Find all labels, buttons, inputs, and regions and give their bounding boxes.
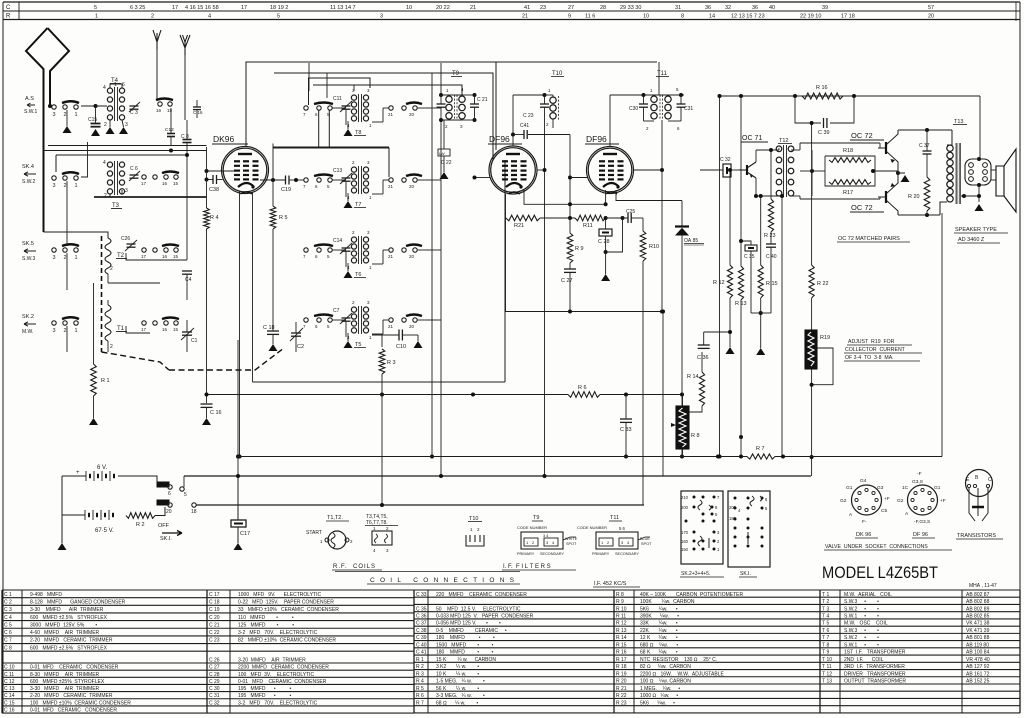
wire bus 394 long	[207, 394, 569, 396]
svg-text:VALVE UNDER SOCKET CONNECTI: VALVE UNDER SOCKET CONNECTIONS	[825, 544, 928, 550]
tube DF96b	[587, 147, 634, 194]
svg-text:4: 4	[208, 14, 211, 20]
capacitor C33	[625, 395, 627, 420]
svg-text:3-2 MFD 70V. ELECTROLYT: 3-2 MFD 70V. ELECTROLYTIC	[238, 630, 318, 636]
svg-text:3RD I.F. TRANSFORMER: 3RD I.F. TRANSFORMER	[844, 664, 905, 670]
svg-text:195 MMFD • •: 195 MMFD • •	[238, 686, 291, 692]
svg-text:C 2: C 2	[4, 599, 12, 605]
wire C38	[207, 179, 214, 181]
svg-text:0-5 MMFD CERAMIC: 0-5 MMFD CERAMIC •	[436, 628, 507, 634]
ground T8	[347, 125, 349, 129]
svg-text:2: 2	[110, 344, 113, 350]
svg-text:20: 20	[409, 254, 415, 259]
svg-text:R 5: R 5	[416, 686, 424, 692]
svg-text:600 MMFD ±2.5% STYROFLEX: 600 MMFD ±2.5% STYROFLEX	[30, 615, 108, 621]
resistor R1	[91, 364, 97, 396]
svg-text:R 17: R 17	[616, 657, 627, 663]
svg-text:2: 2	[64, 328, 67, 334]
svg-text:START: START	[306, 530, 322, 536]
svg-text:21: 21	[388, 112, 394, 117]
svg-text:C 21: C 21	[209, 622, 220, 628]
wire 570 column	[569, 135, 571, 219]
wire C25	[606, 217, 628, 219]
svg-text:16: 16	[156, 108, 162, 113]
svg-text:5 6: 5 6	[619, 526, 625, 531]
svg-text:170: 170	[681, 530, 689, 535]
svg-text:C 32: C 32	[209, 700, 220, 706]
switch SW3	[52, 248, 56, 252]
svg-text:0-01 MFD CERAMIC CONDENS: 0-01 MFD CERAMIC CONDENSER	[238, 679, 327, 685]
svg-text:C 22: C 22	[441, 160, 452, 166]
svg-text:G3,S: G3,S	[912, 479, 923, 485]
svg-text:2: 2	[104, 193, 107, 199]
svg-text:R19: R19	[820, 335, 830, 341]
svg-text:3: 3	[53, 112, 56, 118]
wire avc horiz	[48, 145, 207, 147]
socket SK1 box	[728, 491, 770, 567]
switch S20 contact	[157, 500, 169, 505]
svg-text:12 13 15 7 23: 12 13 15 7 23	[731, 14, 765, 20]
svg-text:2: 2	[151, 14, 154, 20]
wire sw2 down	[66, 181, 68, 246]
svg-text:0-01 MFD CERAMIC CONDENSE: 0-01 MFD CERAMIC CONDENSER	[30, 708, 117, 714]
svg-text:5: 5	[277, 14, 280, 20]
wire sw4 down	[66, 326, 68, 352]
svg-text:LW: LW	[439, 151, 445, 156]
capacitor C35	[745, 245, 757, 251]
svg-text:31: 31	[675, 5, 681, 11]
switch 17-16-15 row3	[142, 248, 146, 252]
wire vert 327	[326, 73, 328, 98]
svg-text:OFF: OFF	[158, 523, 170, 529]
svg-text:3-2 MFD 70V. ELECTROLYT: 3-2 MFD 70V. ELECTROLYTIC	[238, 700, 318, 706]
svg-text:C 39: C 39	[416, 635, 427, 641]
ground emitter	[901, 175, 910, 182]
svg-text:22 19 10: 22 19 10	[800, 14, 821, 20]
potentiometer R19	[805, 330, 817, 369]
svg-text:C7: C7	[333, 308, 340, 314]
wire vert 782	[781, 196, 783, 457]
ground C16	[206, 408, 208, 419]
wire bus 311	[505, 218, 507, 312]
capacitor C22 LW	[438, 149, 450, 156]
wire T3 thick bus	[94, 196, 207, 198]
valve socket DK96	[852, 485, 882, 515]
wire R19 slider	[812, 348, 833, 385]
svg-text:C41: C41	[520, 123, 529, 129]
switch SW2	[52, 176, 56, 180]
ground T7	[347, 197, 349, 201]
svg-text:17: 17	[141, 254, 147, 259]
svg-text:S.W.3 • •: S.W.3 • •	[844, 599, 879, 605]
svg-text:C 18: C 18	[209, 599, 220, 605]
svg-text:110 MMFD • •: 110 MMFD • •	[238, 615, 294, 621]
svg-text:R 8: R 8	[691, 433, 700, 439]
wire R8 bottom	[682, 449, 684, 457]
svg-text:3-30 MMFD AIR TRIMMER: 3-30 MMFD AIR TRIMMER	[30, 686, 100, 692]
capacitor C39	[795, 96, 821, 123]
svg-text:S.W.1 • •: S.W.1 • •	[844, 642, 879, 648]
coil T1	[105, 305, 111, 341]
svg-text:21: 21	[388, 324, 394, 329]
svg-text:16: 16	[162, 254, 168, 259]
pins T7 left	[304, 178, 308, 182]
svg-text:23: 23	[540, 5, 546, 11]
svg-text:1 MEG. ¼w. •: 1 MEG. ¼w. •	[640, 686, 680, 692]
svg-text:21: 21	[522, 14, 528, 20]
socket SK1 pins	[734, 497, 737, 500]
ground C15	[91, 129, 100, 136]
svg-text:R 23: R 23	[764, 233, 776, 239]
svg-text:2: 2	[64, 112, 67, 118]
wire T11 top	[644, 94, 685, 96]
svg-text:G1: G1	[934, 485, 941, 491]
svg-text:20: 20	[166, 509, 172, 515]
wire box to emitter node	[875, 170, 898, 172]
wire R6 right	[600, 394, 682, 396]
svg-text:1: 1	[95, 14, 98, 20]
svg-text:3-20 MMFD AIR TRIMMER: 3-20 MMFD AIR TRIMMER	[238, 657, 306, 663]
svg-text:C 20: C 20	[209, 615, 220, 621]
svg-text:0-01 MFD CERAMIC CONDENS: 0-01 MFD CERAMIC CONDENSER	[30, 665, 119, 671]
wire C31	[680, 95, 682, 104]
svg-text:1000 Ω ¼w. •: 1000 Ω ¼w. •	[640, 693, 678, 699]
svg-text:R 9: R 9	[616, 599, 624, 605]
svg-text:C 21: C 21	[477, 97, 488, 103]
svg-text:AB 801 88: AB 801 88	[966, 635, 990, 641]
svg-text:ADJUST R19 FOR: ADJUST R19 FOR	[848, 339, 895, 345]
svg-text:C 23: C 23	[209, 638, 220, 644]
svg-text:C 3: C 3	[130, 110, 138, 116]
svg-text:R 10: R 10	[616, 606, 627, 612]
svg-text:R21: R21	[514, 223, 524, 229]
svg-text:27: 27	[568, 5, 574, 11]
svg-text:17 18: 17 18	[841, 14, 855, 20]
svg-text:R 1: R 1	[101, 378, 110, 384]
svg-text:180 MMFD •: 180 MMFD • •	[436, 635, 495, 641]
svg-text:AB 152 25: AB 152 25	[966, 679, 990, 685]
svg-text:10: 10	[643, 14, 649, 20]
svg-text:180 MMFD •: 180 MMFD • •	[436, 650, 494, 656]
switch right of T4	[158, 102, 162, 106]
transformer T8	[351, 95, 356, 100]
svg-text:+F: +F	[940, 498, 946, 504]
wire top bus 62	[496, 61, 657, 63]
svg-text:S.W.3 • •: S.W.3 • •	[844, 628, 879, 634]
svg-text:9: 9	[568, 14, 571, 20]
svg-text:32: 32	[725, 5, 731, 11]
svg-text:T 5: T 5	[822, 621, 829, 627]
svg-text:DF96: DF96	[586, 134, 607, 144]
svg-text:C10: C10	[396, 344, 406, 350]
svg-text:C 14: C 14	[4, 693, 15, 699]
wire OA85 down	[681, 236, 683, 457]
wire T11 riser	[658, 62, 660, 95]
svg-text:T11: T11	[610, 515, 619, 521]
wire DF96b bottom	[605, 190, 607, 204]
svg-text:5K6 ¼w. •: 5K6 ¼w. •	[640, 606, 678, 612]
wire C30	[643, 95, 645, 104]
capacitor C40	[766, 243, 776, 245]
svg-text:20: 20	[409, 112, 415, 117]
wire 432 bottom	[431, 420, 433, 457]
svg-text:C 27: C 27	[561, 278, 573, 284]
svg-text:R 20: R 20	[616, 679, 627, 685]
svg-text:R 3: R 3	[387, 360, 396, 366]
svg-text:4 16 15 16 58: 4 16 15 16 58	[185, 5, 219, 11]
resistor R4	[206, 171, 208, 208]
svg-text:C 5: C 5	[4, 622, 12, 628]
wire vert 309	[308, 63, 310, 91]
svg-text:VK 471 39: VK 471 39	[966, 628, 990, 634]
svg-text:R 22: R 22	[616, 693, 627, 699]
svg-text:C 37: C 37	[416, 621, 427, 627]
svg-text:C 27: C 27	[209, 665, 220, 671]
svg-text:C 28: C 28	[209, 672, 220, 678]
filter T9 white spot	[563, 537, 576, 540]
pins T5 left	[304, 318, 308, 322]
socket SK2345 box	[681, 491, 723, 564]
svg-text:R 16: R 16	[616, 650, 627, 656]
svg-text:C 41: C 41	[416, 650, 427, 656]
svg-text:SK.I.: SK.I.	[160, 536, 172, 542]
wire anode tap vert	[272, 144, 274, 181]
svg-text:2: 2	[64, 255, 67, 261]
svg-text:15 K ¼ w. CARBON: 15 K ¼ w. CARBON	[436, 657, 496, 663]
transformer T6	[351, 237, 356, 242]
svg-text:6: 6	[168, 491, 171, 497]
svg-text:600 MMFD ±2.5% STYROFLEX: 600 MMFD ±2.5% STYROFLEX	[30, 645, 108, 651]
svg-text:20 22: 20 22	[436, 5, 450, 11]
wire aerial2 down	[184, 55, 186, 120]
svg-text:R 9: R 9	[575, 246, 584, 252]
svg-text:100 Ω ¼w. CARBON: 100 Ω ¼w. CARBON	[640, 679, 691, 685]
pins T6 left	[304, 248, 308, 252]
border frame	[3, 1, 1020, 3]
svg-text:3: 3	[53, 183, 56, 189]
svg-text:G2: G2	[897, 498, 904, 504]
svg-text:21: 21	[470, 5, 476, 11]
svg-text:PRIMARY: PRIMARY	[592, 552, 610, 556]
wire C40 join	[759, 311, 763, 315]
svg-text:C 37: C 37	[919, 143, 930, 149]
resistor R13	[738, 266, 743, 300]
svg-text:C17: C17	[240, 531, 250, 537]
resistor R5	[272, 180, 274, 206]
svg-text:T 7: T 7	[822, 635, 829, 641]
svg-text:R 3: R 3	[416, 671, 424, 677]
svg-text:SPOT: SPOT	[641, 542, 652, 546]
svg-text:11 6: 11 6	[585, 14, 595, 20]
transistor OC72a	[885, 142, 887, 154]
svg-text:40: 40	[769, 5, 775, 11]
svg-text:NTC RESISTOR 130 Ω 25°: NTC RESISTOR 130 Ω 25° C.	[640, 657, 717, 663]
svg-text:OUTPUT TRANSFORMER: OUTPUT TRANSFORMER	[844, 679, 906, 685]
wire sw3 down	[66, 253, 68, 290]
switch S5 contact	[157, 482, 169, 487]
svg-text:SK.2: SK.2	[22, 314, 34, 320]
svg-text:C19: C19	[281, 187, 291, 193]
svg-text:R 19: R 19	[616, 671, 627, 677]
svg-text:R11: R11	[583, 223, 593, 229]
svg-text:R 16: R 16	[816, 85, 828, 91]
svg-text:PRIMARY: PRIMARY	[517, 552, 535, 556]
resistor R22	[811, 123, 813, 265]
svg-text:1: 1	[75, 112, 78, 118]
svg-text:C5: C5	[881, 508, 887, 514]
svg-text:21: 21	[388, 254, 394, 259]
resistor R3	[381, 335, 383, 347]
ground C18	[272, 334, 274, 344]
wire T4 top	[110, 84, 122, 88]
svg-text:SK.I.: SK.I.	[740, 571, 751, 577]
ground T4 pin3	[122, 120, 124, 127]
svg-text:R18: R18	[843, 148, 853, 154]
capacitor C34	[704, 331, 730, 333]
wire T11 down	[661, 120, 663, 170]
pins T5 right	[389, 318, 393, 322]
svg-text:41: 41	[524, 5, 530, 11]
svg-text:1: 1	[75, 328, 78, 334]
capacitor C10	[398, 330, 400, 341]
svg-text:220 MMFD CERAMIC CONDENS: 220 MMFD CERAMIC CONDENSER	[436, 592, 527, 598]
svg-text:C 35: C 35	[744, 254, 755, 260]
svg-text:200: 200	[681, 505, 689, 510]
svg-text:180: 180	[729, 516, 737, 521]
svg-text:R 18: R 18	[616, 664, 627, 670]
svg-text:-F,G3,S: -F,G3,S	[914, 519, 930, 525]
wire y150	[44, 150, 207, 152]
wire tube to C19	[260, 179, 286, 181]
wire T2 T1 join	[107, 274, 109, 283]
resistor R6	[568, 392, 600, 398]
svg-text:2ND I.F. COIL: 2ND I.F. COIL	[844, 657, 884, 663]
svg-text:G1: G1	[846, 485, 853, 491]
svg-text:AD 3460 Z: AD 3460 Z	[958, 237, 985, 243]
svg-text:5K6 ¼w. •: 5K6 ¼w. •	[640, 700, 675, 706]
svg-text:200: 200	[729, 505, 737, 510]
svg-text:T 4: T 4	[822, 613, 829, 619]
svg-text:R 2: R 2	[416, 664, 424, 670]
svg-text:17: 17	[172, 5, 178, 11]
svg-text:2-20 MMFD CERAMIC TRIMMER: 2-20 MMFD CERAMIC TRIMMER	[30, 693, 113, 699]
svg-text:R 5: R 5	[279, 215, 288, 221]
svg-text:-F: -F	[917, 471, 922, 477]
svg-text:C 38: C 38	[416, 628, 427, 634]
svg-text:AB 802 88: AB 802 88	[966, 599, 990, 605]
svg-text:CODE NUMBER: CODE NUMBER	[517, 525, 547, 530]
svg-text:3 4: 3 4	[543, 534, 548, 538]
resistor R16	[802, 93, 843, 99]
svg-text:2: 2	[64, 183, 67, 189]
transistor socket	[966, 470, 993, 497]
wire rail top OC72	[898, 129, 952, 131]
svg-text:OC 72: OC 72	[851, 203, 873, 212]
svg-text:SPEAKER TYPE: SPEAKER TYPE	[955, 227, 997, 233]
wire R8 slider	[671, 423, 676, 427]
antenna	[26, 28, 69, 232]
svg-text:G4: G4	[860, 478, 867, 484]
svg-text:18 19 2: 18 19 2	[270, 5, 288, 11]
svg-text:1C: 1C	[902, 485, 909, 491]
wire T8 pin6 down	[318, 110, 320, 148]
wire T8 pin7 riser	[309, 78, 371, 105]
node emitter join	[896, 171, 900, 175]
svg-text:C 12: C 12	[4, 679, 15, 685]
svg-text:8-128 MMFD GANGED CONDE: 8-128 MMFD GANGED CONDENSER	[30, 599, 126, 605]
wire dashed AVC	[169, 348, 284, 370]
svg-text:M.W. AERIAL COIL: M.W. AERIAL COIL	[844, 592, 892, 598]
svg-text:DK 96: DK 96	[856, 532, 871, 538]
svg-text:F-: F-	[862, 519, 867, 525]
wire T8 link	[332, 107, 346, 109]
svg-text:C 6: C 6	[130, 166, 138, 172]
wire bus to T7 pin21	[388, 148, 390, 178]
svg-text:R 12: R 12	[616, 621, 627, 627]
capacitor C2 variable	[291, 332, 301, 334]
svg-text:C 35: C 35	[416, 606, 427, 612]
svg-text:C 16: C 16	[4, 708, 15, 714]
svg-text:16: 16	[162, 181, 168, 186]
wire DF96b top riser	[609, 95, 611, 147]
svg-text:40K – 100K CARBON POTEN: 40K – 100K CARBON POTENTIOMETER	[640, 592, 743, 598]
svg-text:CODE NUMBER: CODE NUMBER	[577, 525, 607, 530]
wire sw1 to C15 and T4	[81, 105, 107, 107]
svg-text:AB 161 72: AB 161 72	[966, 671, 990, 677]
label SK.1 arrow	[162, 531, 182, 536]
wire T7 link	[332, 179, 346, 181]
wire T5 link	[332, 319, 346, 321]
wire y155	[56, 154, 187, 156]
svg-text:C 13: C 13	[4, 686, 15, 692]
wire DK96 anode down	[239, 191, 241, 457]
switch SW1	[52, 105, 56, 109]
wire bus 456	[238, 456, 747, 458]
speaker cone	[996, 166, 1004, 196]
capacitor C32	[700, 169, 723, 171]
svg-text:R 11: R 11	[616, 613, 626, 619]
svg-text:C38: C38	[209, 187, 219, 193]
svg-text:T 12: T 12	[822, 671, 832, 677]
svg-text:8: 8	[681, 14, 684, 20]
svg-text:OF 3·4 TO 3·8 MA.: OF 3·4 TO 3·8 MA.	[845, 355, 894, 361]
wire T12 secondary to bases	[799, 143, 801, 150]
wire C22 top	[443, 120, 445, 149]
svg-text:C2: C2	[297, 344, 304, 350]
svg-text:100K ¼w. CARBON: 100K ¼w. CARBON	[640, 599, 695, 605]
svg-text:C26: C26	[121, 236, 130, 242]
svg-text:SECONDARY: SECONDARY	[540, 552, 564, 556]
transformer T11	[651, 96, 657, 102]
svg-text:600 MMFD ±25% STYROFLEX: 600 MMFD ±25% STYROFLEX	[30, 679, 105, 685]
valve socket DF96	[908, 485, 938, 515]
svg-text:11 13 14 7: 11 13 14 7	[330, 5, 356, 11]
speaker transformer secondary	[965, 159, 991, 185]
svg-text:3: 3	[125, 122, 128, 128]
svg-text:T 1: T 1	[822, 592, 829, 598]
svg-text:3-30 MMFD AIR TRIMMER: 3-30 MMFD AIR TRIMMER	[30, 607, 104, 613]
svg-text:C: C	[988, 477, 992, 483]
wire y232	[44, 232, 109, 238]
svg-text:DRIVER TRANSFORMER: DRIVER TRANSFORMER	[844, 671, 906, 677]
svg-text:39: 39	[822, 5, 828, 11]
svg-text:3000 MMFD 125V. 5% •: 3000 MMFD 125V. 5% •	[30, 622, 97, 628]
wire vert 719	[719, 96, 721, 457]
svg-text:C: C	[6, 5, 11, 11]
svg-text:R 4: R 4	[416, 679, 424, 685]
wire R1 feed	[93, 283, 95, 364]
svg-text:36: 36	[705, 5, 711, 11]
